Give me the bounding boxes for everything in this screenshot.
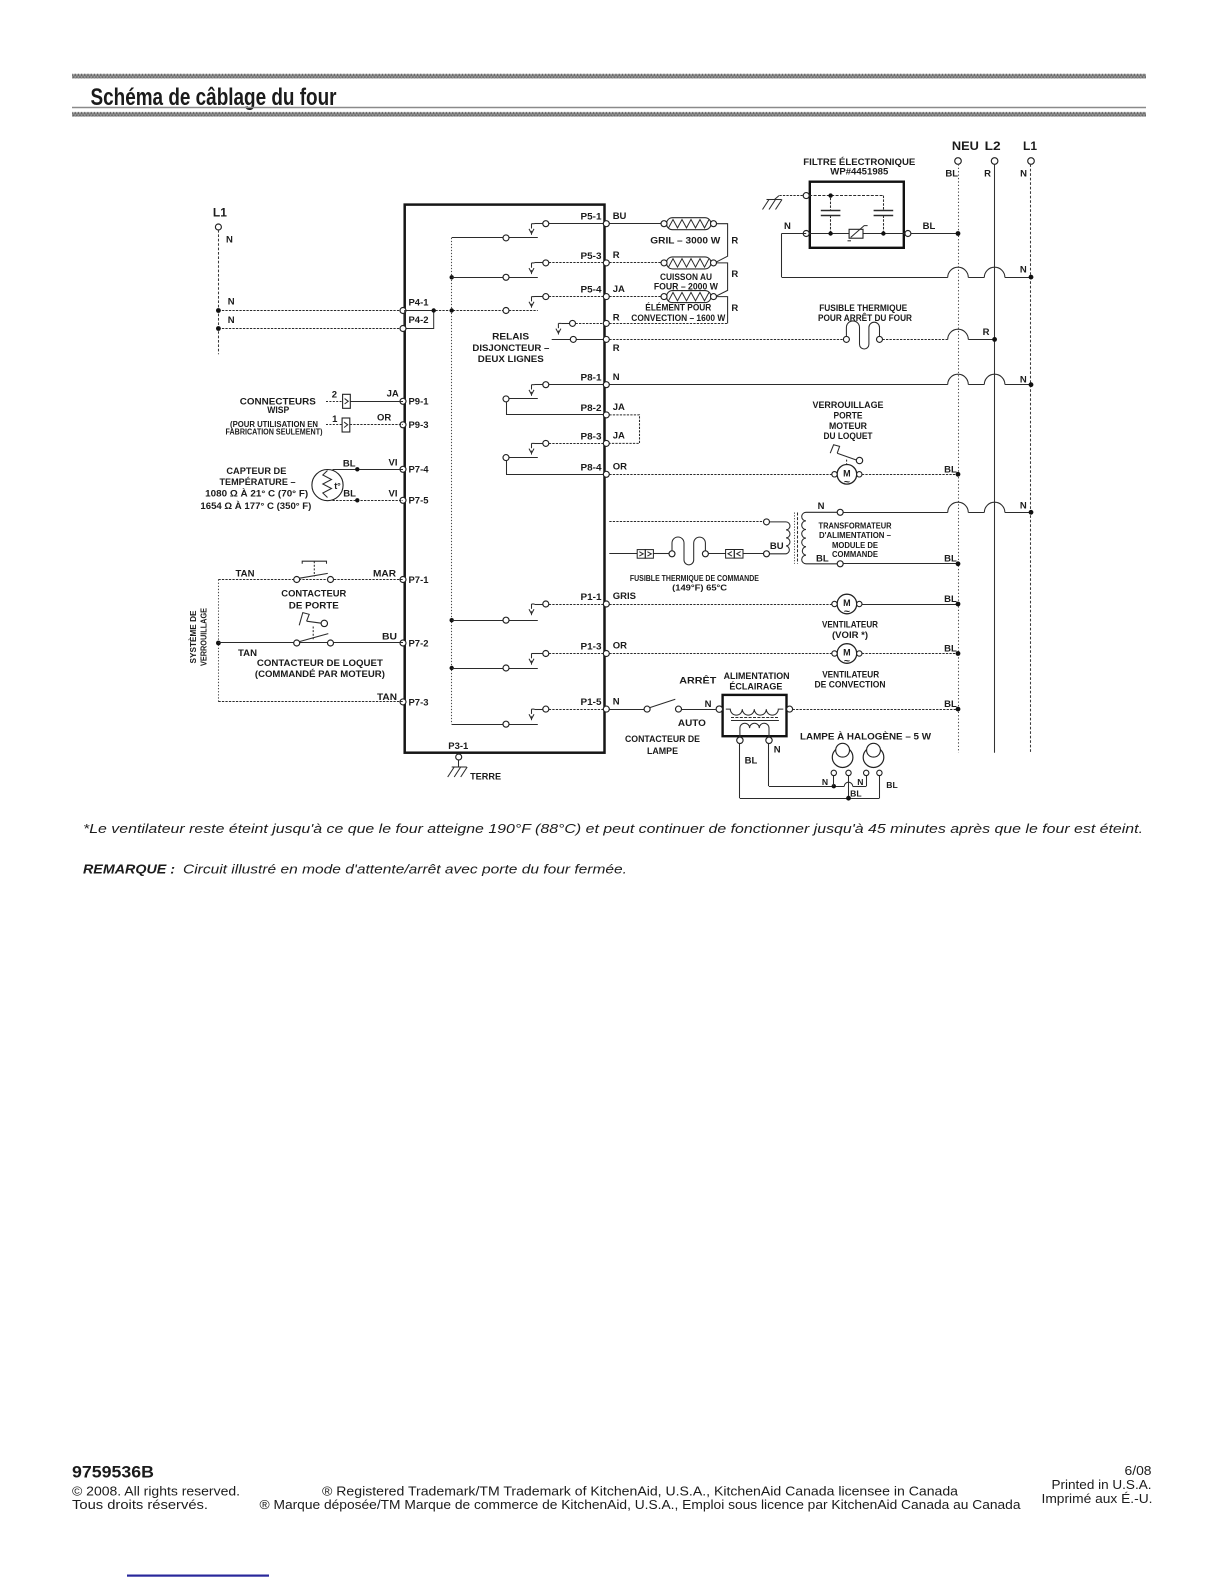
svg-text:SYSTÈME DE: SYSTÈME DE bbox=[188, 610, 198, 663]
header squiggle band bottom bbox=[72, 112, 1146, 117]
svg-text:P5-1: P5-1 bbox=[581, 212, 603, 223]
svg-text:N: N bbox=[1020, 375, 1027, 386]
relay pole contact K5 (P8-1/P8-2) bbox=[535, 384, 543, 386]
svg-text:1080 Ω À 21° C (70° F): 1080 Ω À 21° C (70° F) bbox=[205, 489, 308, 500]
switch S3 (contacteur de loquet) cam bbox=[299, 613, 309, 626]
ground (filter) bbox=[767, 199, 782, 201]
svg-text:P4-1: P4-1 bbox=[409, 298, 430, 309]
svg-text:BL: BL bbox=[923, 221, 936, 232]
wire L2 vertical bbox=[994, 164, 996, 752]
wire P3-1 to earth bbox=[458, 760, 460, 767]
svg-text:N: N bbox=[818, 501, 825, 512]
svg-text:DE PORTE: DE PORTE bbox=[289, 601, 339, 612]
ground TERRE bbox=[452, 766, 467, 768]
switch S1 (contacteur de lampe) bbox=[644, 706, 650, 712]
wire latch motor to NEU bbox=[862, 474, 958, 476]
svg-text:POUR ARRÊT DU FOUR: POUR ARRÊT DU FOUR bbox=[818, 312, 912, 324]
svg-text:D'ALIMENTATION –: D'ALIMENTATION – bbox=[819, 530, 891, 540]
lamp DS2 bbox=[863, 747, 884, 768]
svg-text:R: R bbox=[984, 169, 991, 180]
junction filter-BL / NEU bbox=[956, 231, 961, 236]
T2 secondary taps bbox=[737, 737, 743, 743]
svg-text:VERROUILLAGE: VERROUILLAGE bbox=[199, 608, 209, 666]
svg-text:GRIL – 3000 W: GRIL – 3000 W bbox=[650, 236, 720, 247]
junction N / L1 bbox=[1029, 382, 1034, 387]
connector pair (P3-2 line, right) bbox=[708, 553, 725, 555]
svg-text:P8-1: P8-1 bbox=[581, 373, 603, 384]
svg-text:P9-1: P9-1 bbox=[409, 397, 430, 408]
connector P8-3 bbox=[603, 440, 609, 446]
connector P5-3 bbox=[603, 260, 609, 266]
svg-text:N: N bbox=[228, 315, 235, 326]
svg-text:L2: L2 bbox=[985, 139, 1001, 153]
svg-text:N: N bbox=[822, 777, 828, 787]
filter bottom internal wire bbox=[809, 233, 905, 235]
connector P7-5 bbox=[400, 497, 406, 503]
wire BL filter to NEU bbox=[911, 233, 958, 235]
T2 primary bbox=[726, 709, 784, 715]
wire P8-1 N to L1 bbox=[609, 384, 947, 386]
heating element CUISSON AU FOUR 2000W bbox=[667, 257, 712, 269]
switch S2 (contacteur de porte) bbox=[294, 577, 300, 583]
relay pole contact K8 (P1-3) bbox=[535, 653, 543, 655]
capacitor C1 bbox=[830, 198, 832, 211]
relay pin R upper bbox=[603, 320, 609, 326]
svg-text:BL: BL bbox=[944, 594, 957, 605]
thermal fuse F2 (commande) bbox=[669, 551, 675, 557]
svg-text:COMMANDE: COMMANDE bbox=[832, 549, 878, 559]
wire BL tap down bbox=[739, 744, 741, 799]
wire P7-2 BU bbox=[218, 642, 403, 644]
relay pole contact K6 (P8-3/P8-4) bbox=[535, 443, 543, 445]
svg-text:P5-3: P5-3 bbox=[581, 251, 602, 262]
connector P7-3 bbox=[400, 699, 406, 705]
wire NEU vertical bbox=[958, 164, 960, 752]
svg-text:ARRÊT: ARRÊT bbox=[679, 674, 716, 686]
svg-text:BL: BL bbox=[944, 553, 957, 564]
svg-text:CONVECTION – 1600 W: CONVECTION – 1600 W bbox=[631, 313, 725, 324]
door lock left bus bbox=[218, 580, 220, 702]
wire convection to R return bbox=[717, 297, 728, 324]
svg-text:L1: L1 bbox=[1023, 139, 1037, 153]
svg-text:TERRE: TERRE bbox=[470, 771, 501, 782]
junction convection fan BL / NEU bbox=[956, 651, 961, 656]
svg-text:BL: BL bbox=[944, 644, 957, 655]
svg-text:REMARQUE :: REMARQUE : bbox=[83, 862, 175, 877]
svg-text:JA: JA bbox=[613, 431, 625, 442]
svg-text:LAMPE À HALOGÈNE – 5 W: LAMPE À HALOGÈNE – 5 W bbox=[800, 731, 931, 742]
connector P1-1 bbox=[603, 601, 609, 607]
svg-text:WISP: WISP bbox=[267, 405, 290, 416]
svg-text:P1-1: P1-1 bbox=[581, 592, 603, 603]
connector P8-4 bbox=[603, 471, 609, 477]
svg-text:JA: JA bbox=[613, 284, 625, 295]
svg-text:OR: OR bbox=[613, 462, 627, 473]
relay internal supply bus bbox=[451, 238, 453, 724]
svg-text:R: R bbox=[613, 313, 620, 324]
svg-text:BL: BL bbox=[944, 699, 957, 710]
wire bake to chain bbox=[716, 263, 728, 296]
svg-text:GRIS: GRIS bbox=[613, 591, 636, 602]
wire grill to chain bbox=[716, 224, 728, 263]
svg-text:N: N bbox=[226, 235, 233, 246]
wire R return to relay bbox=[609, 323, 727, 325]
connector P8-2 bbox=[603, 412, 609, 418]
wire P7-1 MAR bbox=[218, 579, 403, 581]
svg-text:BL: BL bbox=[343, 489, 356, 500]
svg-text:FABRICATION SEULEMENT): FABRICATION SEULEMENT) bbox=[226, 427, 323, 436]
motor M3 (convection fan) bbox=[837, 644, 857, 664]
svg-text:Imprimé aux É.-U.: Imprimé aux É.-U. bbox=[1042, 1491, 1153, 1506]
svg-text:2: 2 bbox=[332, 389, 337, 400]
connector P1-3 bbox=[603, 651, 609, 657]
svg-text:DEUX LIGNES: DEUX LIGNES bbox=[478, 354, 544, 365]
svg-text:MAR: MAR bbox=[373, 569, 396, 580]
svg-text:~: ~ bbox=[844, 606, 850, 618]
svg-text:N: N bbox=[784, 221, 791, 232]
header squiggle band top bbox=[72, 74, 1146, 79]
filter box bbox=[810, 182, 904, 248]
svg-text:WP#4451985: WP#4451985 bbox=[830, 167, 889, 178]
transformer T1 secondary bbox=[802, 512, 838, 564]
svg-text:OR: OR bbox=[377, 413, 391, 424]
svg-text:(COMMANDÉ PAR MOTEUR): (COMMANDÉ PAR MOTEUR) bbox=[255, 669, 385, 680]
svg-text:N: N bbox=[1020, 265, 1027, 276]
varistor RV1 bbox=[849, 229, 863, 238]
wire P1-1 GRIS to fan bbox=[609, 604, 834, 606]
bottom blue mark bbox=[127, 1575, 269, 1577]
svg-text:Circuit illustré en mode d'att: Circuit illustré en mode d'attente/arrêt… bbox=[183, 862, 627, 877]
capacitor C2 bbox=[883, 196, 885, 211]
lamp bottom BL bus bbox=[740, 798, 880, 800]
filter terminal (left bottom) bbox=[803, 231, 809, 237]
svg-text:TAN: TAN bbox=[238, 648, 257, 659]
svg-text:CONTACTEUR DE: CONTACTEUR DE bbox=[625, 734, 700, 745]
svg-text:P9-3: P9-3 bbox=[409, 420, 429, 431]
svg-text:1654 Ω À 177° C (350° F): 1654 Ω À 177° C (350° F) bbox=[200, 501, 311, 512]
wire WISP2 to P9-1 bbox=[350, 401, 403, 403]
svg-text:CONTACTEUR: CONTACTEUR bbox=[281, 589, 346, 600]
connector P9-3 bbox=[400, 422, 406, 428]
svg-text:VI: VI bbox=[389, 489, 398, 500]
svg-text:CAPTEUR DE: CAPTEUR DE bbox=[226, 466, 286, 477]
svg-text:CONTACTEUR DE LOQUET: CONTACTEUR DE LOQUET bbox=[257, 658, 383, 669]
wire P5-3 to bake element bbox=[609, 262, 661, 264]
svg-text:BL: BL bbox=[945, 169, 958, 180]
motor M1 (latch) bbox=[837, 465, 857, 485]
svg-text:R: R bbox=[731, 236, 738, 247]
wire P3-2 BU via fuse bbox=[609, 553, 637, 555]
relay pole contact K9 (P1-5) bbox=[535, 709, 543, 711]
svg-text:N: N bbox=[705, 699, 712, 710]
T2 right terminal bbox=[787, 706, 793, 712]
svg-text:P8-4: P8-4 bbox=[581, 462, 603, 473]
svg-text:BU: BU bbox=[770, 541, 784, 552]
wire P3-3 BU to transformer primary bbox=[609, 521, 763, 523]
svg-text:N: N bbox=[1020, 500, 1027, 511]
svg-text:P1-3: P1-3 bbox=[581, 642, 602, 653]
wire sensor to P7-5 bbox=[333, 500, 404, 502]
svg-text:BU: BU bbox=[382, 632, 397, 643]
svg-text:AUTO: AUTO bbox=[678, 718, 706, 729]
svg-text:TAN: TAN bbox=[236, 569, 255, 580]
lamp DS1 bbox=[832, 747, 853, 768]
svg-text:TRANSFORMATEUR: TRANSFORMATEUR bbox=[819, 521, 892, 531]
relay pole contact K7 (P1-1) bbox=[535, 604, 543, 606]
junction filter-N / L1 bbox=[1029, 275, 1034, 280]
filter ground wire bbox=[779, 195, 806, 197]
svg-text:~: ~ bbox=[844, 476, 850, 488]
svg-text:Tous droits réservés.: Tous droits réservés. bbox=[72, 1498, 208, 1512]
wire fan to NEU bbox=[862, 604, 958, 606]
svg-text:DU LOQUET: DU LOQUET bbox=[824, 431, 873, 442]
svg-text:BL: BL bbox=[816, 553, 829, 564]
connector P7-1 bbox=[400, 577, 406, 583]
wire L1 vertical bbox=[1030, 164, 1032, 752]
wire P5-4 to convection element bbox=[609, 296, 661, 298]
connector P7-2 bbox=[400, 640, 406, 646]
svg-text:N: N bbox=[1020, 169, 1027, 180]
connector P5-4 bbox=[603, 294, 609, 300]
svg-text:P8-3: P8-3 bbox=[581, 431, 602, 442]
connector P4-1 bbox=[400, 308, 406, 314]
connector P5-1 bbox=[603, 221, 609, 227]
wire sensor to P7-4 bbox=[333, 469, 404, 471]
relay pole contact K3 (P5-4) bbox=[535, 296, 543, 298]
svg-text:P7-1: P7-1 bbox=[409, 575, 430, 586]
T2 secondary bbox=[740, 723, 769, 737]
wire P8-2/P8-3 loop bbox=[609, 415, 639, 444]
wire P1-5 N to lamp switch bbox=[609, 709, 644, 711]
svg-text:R: R bbox=[731, 303, 738, 314]
junction R / L2 bbox=[992, 337, 997, 342]
transformer T1 primary bbox=[770, 522, 791, 554]
svg-text:BL: BL bbox=[886, 780, 897, 790]
svg-text:t°: t° bbox=[334, 481, 341, 491]
svg-text:Printed in U.S.A.: Printed in U.S.A. bbox=[1052, 1478, 1152, 1492]
svg-text:VI: VI bbox=[389, 458, 398, 469]
heating element CONVECTION 1600W bbox=[667, 291, 712, 303]
temperature sensor RT1 bbox=[312, 470, 343, 501]
svg-text:9759536B: 9759536B bbox=[72, 1463, 154, 1482]
relay pole contact K2 (P5-3) bbox=[535, 262, 543, 264]
filter terminal (right) bbox=[905, 231, 911, 237]
wire P1-3 OR to convection fan bbox=[609, 653, 834, 655]
junction latch BL / NEU bbox=[956, 472, 961, 477]
wire P8-4 to latch motor bbox=[609, 474, 832, 476]
wire L1-left vertical bbox=[218, 230, 220, 354]
svg-text:N: N bbox=[857, 777, 863, 787]
wire thermal fuse to L2 bbox=[883, 339, 948, 341]
transformer T1 core bbox=[794, 513, 796, 564]
relay pole contact K4 (R-R) bbox=[561, 323, 569, 325]
wire N tap run bbox=[768, 744, 770, 787]
wire switch to lamp transformer bbox=[682, 709, 716, 711]
svg-text:P7-4: P7-4 bbox=[409, 465, 430, 476]
latch cam lever bbox=[830, 445, 839, 453]
filter internal top bus bbox=[809, 195, 883, 197]
svg-text:R: R bbox=[613, 250, 620, 261]
svg-text:OR: OR bbox=[613, 641, 627, 652]
svg-text:P1-5: P1-5 bbox=[581, 697, 603, 708]
svg-text:P5-4: P5-4 bbox=[581, 285, 603, 296]
heating element GRIL 3000W bbox=[667, 218, 712, 230]
svg-text:BL: BL bbox=[850, 789, 861, 799]
svg-text:BL: BL bbox=[944, 465, 957, 476]
svg-text:DISJONCTEUR –: DISJONCTEUR – bbox=[472, 343, 549, 354]
T2 core bbox=[731, 717, 779, 719]
wire filter N loop to L1 bbox=[782, 233, 807, 235]
filter terminal N (left top) bbox=[803, 193, 809, 199]
connector P8-1 bbox=[603, 382, 609, 388]
svg-text:P4-2: P4-2 bbox=[409, 315, 429, 326]
connector pair (P3-2 line, left) bbox=[637, 550, 645, 559]
svg-text:R: R bbox=[731, 269, 738, 280]
svg-text:TAN: TAN bbox=[377, 692, 397, 703]
svg-text:R: R bbox=[983, 327, 990, 338]
wire P5-1 to grill element bbox=[609, 223, 661, 225]
wire convection fan to NEU bbox=[862, 653, 958, 655]
svg-text:*Le ventilateur reste éteint j: *Le ventilateur reste éteint jusqu'à ce … bbox=[83, 821, 1143, 836]
svg-text:6/08: 6/08 bbox=[1125, 1464, 1152, 1478]
svg-text:R: R bbox=[613, 343, 620, 354]
junction fan BL / NEU bbox=[956, 602, 961, 607]
header thin rule bbox=[72, 107, 1146, 109]
svg-text:® Marque déposée/TM Marque de: ® Marque déposée/TM Marque de commerce d… bbox=[260, 1498, 1021, 1512]
junction T2 BL / NEU bbox=[956, 707, 961, 712]
svg-text:L1: L1 bbox=[213, 205, 227, 219]
wire WISP1 to P9-3 bbox=[350, 424, 403, 426]
connector P4-2 jumper box bbox=[405, 311, 434, 329]
svg-text:~: ~ bbox=[844, 655, 850, 667]
motor M2 (oven fan) bbox=[837, 594, 857, 614]
svg-text:LAMPE: LAMPE bbox=[647, 746, 678, 757]
svg-text:N: N bbox=[774, 745, 781, 756]
connector P1-5 bbox=[603, 706, 609, 712]
relay pole contact K1 (P5-1) bbox=[535, 223, 543, 225]
junction secondary-BL / NEU bbox=[956, 561, 961, 566]
svg-text:1: 1 bbox=[332, 414, 338, 425]
svg-text:BU: BU bbox=[613, 211, 627, 222]
wire relay R to thermal fuse bbox=[609, 339, 843, 341]
wire secondary N to L1 bbox=[837, 509, 843, 515]
svg-text:(149°F) 65°C: (149°F) 65°C bbox=[672, 582, 727, 592]
svg-text:ÉCLAIRAGE: ÉCLAIRAGE bbox=[729, 681, 782, 692]
svg-text:P7-2: P7-2 bbox=[409, 638, 429, 649]
svg-text:P8-2: P8-2 bbox=[581, 403, 602, 414]
svg-text:N: N bbox=[228, 297, 235, 308]
junction secondary-N / L1 bbox=[1029, 510, 1034, 515]
relay pin R lower bbox=[603, 336, 609, 342]
svg-text:P3-1: P3-1 bbox=[448, 741, 469, 752]
svg-text:NEU: NEU bbox=[952, 139, 979, 153]
wire P7-3 TAN bbox=[218, 701, 403, 703]
svg-text:© 2008. All rights reserved.: © 2008. All rights reserved. bbox=[72, 1484, 240, 1498]
svg-text:RELAIS: RELAIS bbox=[492, 332, 529, 343]
svg-text:JA: JA bbox=[613, 402, 625, 413]
svg-text:DE CONVECTION: DE CONVECTION bbox=[815, 679, 886, 690]
connector P7-4 bbox=[400, 466, 406, 472]
svg-text:(VOIR *): (VOIR *) bbox=[832, 630, 868, 641]
svg-text:BL: BL bbox=[745, 756, 758, 767]
connector P9-1 bbox=[400, 398, 406, 404]
svg-text:P7-3: P7-3 bbox=[409, 697, 429, 708]
relay (relais disjoncteur - deux lignes) box bbox=[405, 205, 605, 753]
wire T2 to NEU bbox=[793, 709, 958, 711]
wire secondary BL to NEU bbox=[837, 561, 843, 567]
svg-text:® Registered Trademark/TM Trad: ® Registered Trademark/TM Trademark of K… bbox=[322, 1484, 958, 1498]
svg-text:P7-5: P7-5 bbox=[409, 496, 430, 507]
svg-text:JA: JA bbox=[387, 389, 399, 400]
svg-text:BL: BL bbox=[343, 458, 356, 469]
svg-text:N: N bbox=[613, 372, 620, 383]
svg-text:TEMPÉRATURE –: TEMPÉRATURE – bbox=[220, 477, 296, 488]
svg-text:N: N bbox=[613, 696, 620, 707]
